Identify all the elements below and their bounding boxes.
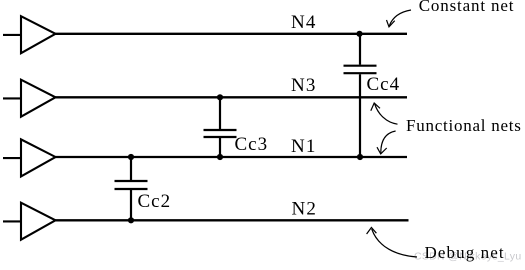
capacitor Cc3 (between N3 and N1) (204, 97, 237, 157)
annotation arrow to net N4 (387, 10, 412, 27)
junction dot N2/Cc2 (128, 217, 134, 223)
junction dot N1/Cc4 (357, 154, 363, 160)
svg-text:Cc3: Cc3 (235, 134, 269, 155)
junction dot N1/Cc3 (217, 154, 223, 160)
wire net N3 (56, 96, 408, 98)
buffer U4 (driver of net N2) (3, 203, 56, 240)
annotation arrow to net N3 (371, 103, 398, 124)
buffer U1 (driver of net N4) (3, 16, 56, 53)
svg-text:Cc2: Cc2 (138, 191, 172, 212)
wire net N2 (56, 219, 409, 221)
capacitor Cc2 (between N1 and N2) (115, 157, 148, 220)
wire net N1 (56, 156, 408, 158)
svg-text:N2: N2 (292, 199, 317, 220)
wire net N4 (56, 33, 408, 35)
svg-text:N3: N3 (291, 75, 316, 96)
svg-text:Constant net: Constant net (419, 0, 515, 15)
buffer U2 (driver of net N3) (3, 80, 56, 117)
junction dot N3/Cc3 (217, 94, 223, 100)
junction dot N1/Cc2 (128, 154, 134, 160)
svg-text:Debug net: Debug net (425, 243, 505, 262)
buffer U3 (driver of net N1) (3, 139, 56, 176)
annotation arrow to net N2 (367, 228, 417, 258)
capacitor Cc4 (between N4 and N1, crossing N3) (344, 34, 377, 157)
svg-text:N4: N4 (291, 12, 316, 33)
annotation arrow to net N1 (377, 131, 396, 154)
svg-text:Functional nets: Functional nets (406, 116, 522, 135)
junction dot N4/Cc4 (356, 31, 362, 37)
svg-text:N1: N1 (291, 136, 316, 157)
svg-text:Cc4: Cc4 (367, 74, 401, 95)
